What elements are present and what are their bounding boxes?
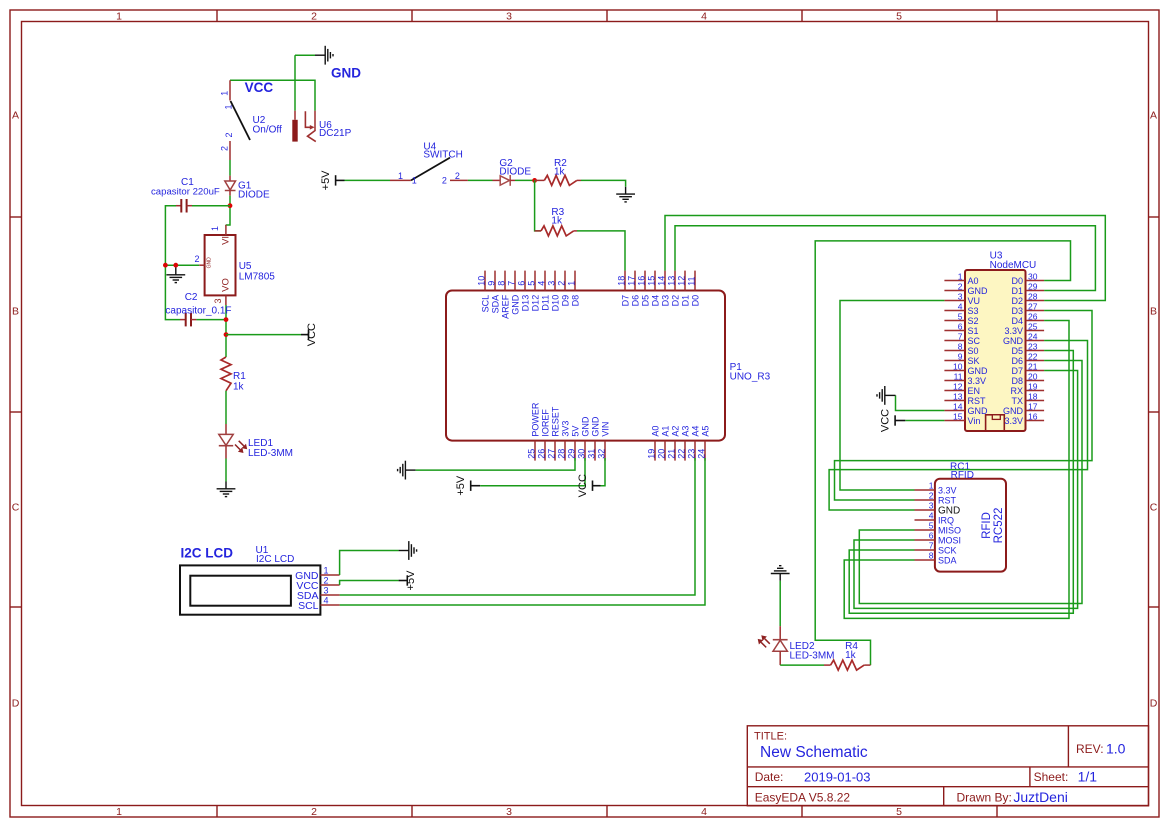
svg-text:9: 9 [487, 281, 497, 286]
connector U6 DC21P [292, 111, 316, 142]
diode G1 [225, 176, 236, 196]
svg-text:VCC: VCC [245, 80, 274, 95]
svg-text:+5V: +5V [455, 475, 467, 496]
svg-text:SDA: SDA [938, 556, 957, 566]
RC1 pin 8 SDA [915, 551, 957, 566]
svg-text:13: 13 [953, 391, 963, 401]
svg-text:7: 7 [929, 541, 934, 551]
regulator U5 LM7805 [199, 225, 235, 305]
svg-text:15: 15 [647, 276, 657, 286]
svg-text:11: 11 [954, 371, 963, 381]
svg-text:16: 16 [1028, 411, 1038, 421]
P1 pin 19 A0 [647, 426, 661, 461]
svg-text:NodeMCU: NodeMCU [990, 260, 1037, 271]
svg-text:12: 12 [677, 276, 687, 286]
svg-text:14: 14 [657, 276, 667, 286]
P1 pin 29 5V [567, 426, 581, 461]
svg-text:5: 5 [929, 521, 934, 531]
ground (U5 pin2) [166, 268, 185, 283]
svg-text:2: 2 [311, 806, 317, 818]
svg-text:10: 10 [953, 361, 963, 371]
svg-text:EN: EN [968, 386, 981, 396]
svg-text:D10: D10 [551, 295, 561, 312]
wire RC1 MISO to U3 D6 [859, 361, 1082, 604]
P1 pin 30 GND [577, 416, 591, 461]
svg-text:SK: SK [968, 356, 980, 366]
svg-text:LM7805: LM7805 [239, 272, 276, 283]
svg-text:25: 25 [1028, 321, 1038, 331]
U3 pin 18 TX [1011, 391, 1044, 406]
wire U2 pin1 to U6 pin2 [230, 80, 315, 110]
P1 pin 24 A5 [697, 426, 711, 461]
P1 pin 4 D11 [537, 271, 551, 311]
U3 pin 29 D1 [1011, 281, 1044, 296]
svg-text:RST: RST [938, 496, 957, 506]
RC1 pin 1 3.3V [915, 481, 957, 496]
P1 pin 9 SDA [487, 271, 501, 314]
U3 pin 15 Vin [944, 411, 980, 426]
junction below G1 [228, 203, 233, 208]
svg-text:26: 26 [1028, 311, 1038, 321]
wire ground to LED2 [779, 581, 781, 626]
svg-text:10: 10 [477, 276, 487, 286]
svg-text:3.3V: 3.3V [938, 486, 957, 496]
wire RC1 MOSI to U3 D7 [854, 371, 1078, 609]
U3 pin 9 SK [944, 351, 979, 366]
svg-text:2: 2 [958, 281, 963, 291]
RC1 pin 3 GND [915, 501, 961, 517]
P1 pin 23 A4 [687, 426, 701, 461]
svg-text:GND: GND [331, 66, 361, 81]
svg-text:POWER: POWER [531, 402, 541, 437]
svg-text:On/Off: On/Off [253, 124, 282, 135]
svg-text:5: 5 [896, 806, 902, 818]
svg-text:S1: S1 [968, 326, 979, 336]
svg-text:D4: D4 [1011, 316, 1023, 326]
U3 pin 23 D5 [1011, 341, 1044, 356]
svg-text:D8: D8 [1011, 376, 1023, 386]
svg-text:3: 3 [506, 806, 512, 818]
svg-text:GND: GND [581, 416, 591, 437]
svg-text:5V: 5V [571, 426, 581, 437]
svg-text:D13: D13 [521, 295, 531, 312]
resistor R3 [535, 226, 577, 236]
P1 pin 18 D7 [617, 271, 631, 307]
P1 pin 32 VIN [597, 422, 611, 461]
junction C2 [224, 317, 229, 322]
svg-text:VO: VO [221, 278, 232, 292]
wire LCD VCC to +5V [340, 581, 399, 586]
P1 pin 2 D9 [557, 271, 571, 307]
svg-text:1k: 1k [845, 650, 857, 661]
svg-text:MOSI: MOSI [938, 536, 961, 546]
svg-text:REV:: REV: [1076, 742, 1104, 756]
U3 pin 26 D4 [1011, 311, 1044, 326]
svg-text:20: 20 [1028, 371, 1038, 381]
wire VCC to GND net top [295, 54, 315, 56]
svg-text:8: 8 [929, 551, 934, 561]
U3 pin 24 GND [1003, 331, 1044, 346]
svg-text:3.3V: 3.3V [1004, 326, 1023, 336]
ground (LCD pin1) [399, 541, 417, 560]
svg-text:5: 5 [896, 11, 902, 23]
svg-text:3: 3 [213, 298, 223, 303]
svg-text:4: 4 [537, 281, 547, 286]
svg-text:3: 3 [929, 501, 934, 511]
svg-text:5: 5 [958, 311, 963, 321]
svg-text:16: 16 [637, 276, 647, 286]
svg-text:2: 2 [929, 491, 934, 501]
wire +5V to U4 [345, 179, 391, 181]
wire U5 pin2 to ground rail [165, 264, 199, 266]
svg-text:28: 28 [557, 449, 567, 459]
svg-text:RESET: RESET [551, 406, 561, 437]
svg-text:31: 31 [587, 449, 597, 459]
svg-text:GND: GND [968, 406, 989, 416]
svg-text:DIODE: DIODE [238, 190, 270, 201]
switch U4 SWITCH [390, 158, 468, 181]
svg-text:1: 1 [929, 481, 934, 491]
svg-text:3: 3 [958, 291, 963, 301]
svg-text:S0: S0 [968, 346, 979, 356]
svg-text:RC522: RC522 [993, 508, 1005, 544]
U3 pin 27 D3 [1011, 301, 1044, 316]
svg-text:LED-3MM: LED-3MM [248, 448, 293, 459]
svg-text:D5: D5 [1011, 346, 1023, 356]
svg-text:4: 4 [324, 596, 329, 606]
wire VCC to P1 pin32 [601, 458, 606, 486]
svg-text:U5: U5 [239, 261, 252, 272]
P1 pin 13 D2 [667, 271, 681, 307]
svg-text:GND: GND [1003, 406, 1024, 416]
svg-text:GND: GND [511, 294, 521, 315]
svg-text:D2: D2 [1011, 296, 1023, 306]
svg-text:B: B [1150, 306, 1157, 318]
svg-text:2: 2 [224, 132, 234, 137]
ground (R2) [616, 187, 635, 202]
svg-text:R1: R1 [233, 371, 246, 382]
svg-text:Sheet:: Sheet: [1034, 770, 1069, 784]
svg-text:23: 23 [687, 449, 697, 459]
svg-text:2019-01-03: 2019-01-03 [804, 770, 871, 785]
capacitor C2 [180, 313, 196, 327]
svg-text:capasitor 220uF: capasitor 220uF [151, 186, 220, 197]
U3 pin 12 EN [944, 381, 980, 396]
svg-text:A5: A5 [701, 426, 711, 437]
diode G2 [493, 175, 516, 186]
wire G1 to junction [226, 196, 230, 225]
U1 pin 4 SCL [298, 596, 340, 612]
title block [747, 726, 1148, 806]
svg-text:D1: D1 [1011, 286, 1023, 296]
wire RC1 SDA to U3 D4 [844, 321, 1069, 619]
svg-text:12: 12 [953, 381, 963, 391]
svg-text:TITLE:: TITLE: [754, 731, 787, 743]
svg-text:Date:: Date: [755, 770, 784, 784]
svg-text:4: 4 [929, 511, 934, 521]
svg-text:2: 2 [455, 171, 460, 181]
svg-text:RFID: RFID [981, 512, 993, 539]
resistor R1 [221, 357, 231, 391]
ground (U3 pin14) [877, 386, 896, 405]
svg-text:I2C LCD: I2C LCD [256, 554, 294, 565]
svg-text:A: A [1150, 110, 1157, 122]
U3 pin 20 D8 [1011, 371, 1044, 386]
wire ground to P1 pin29 [416, 458, 575, 470]
U1 pin 3 SDA [297, 586, 340, 602]
frame row letters left [12, 110, 20, 710]
wire C1 right to junction [192, 205, 230, 207]
svg-text:6: 6 [517, 281, 527, 286]
svg-text:3.3V: 3.3V [1004, 416, 1023, 426]
wire LED1 to ground [225, 459, 227, 482]
U3 pin 4 S3 [944, 301, 978, 316]
svg-text:1/1: 1/1 [1078, 769, 1098, 785]
svg-text:VIN: VIN [601, 422, 611, 437]
wire C2 right [196, 319, 226, 321]
svg-text:VU: VU [968, 296, 981, 306]
wire C1 left rail [165, 206, 180, 320]
svg-text:GND: GND [968, 286, 989, 296]
svg-text:5: 5 [527, 281, 537, 286]
svg-text:SWITCH: SWITCH [423, 150, 462, 161]
svg-text:3: 3 [506, 11, 512, 23]
power flag +5V (switch input) [336, 175, 345, 185]
svg-text:11: 11 [687, 276, 697, 285]
P1 pin 3 D10 [547, 271, 561, 312]
power flag +5V (LCD pin2) [399, 575, 408, 585]
svg-text:I2C LCD: I2C LCD [181, 546, 234, 561]
P1 pin 8 AREF [497, 271, 511, 319]
svg-text:A0: A0 [968, 276, 979, 286]
svg-text:1k: 1k [554, 166, 566, 177]
switch U2 On/Off [230, 80, 250, 160]
svg-text:A4: A4 [691, 426, 701, 437]
wire U3 VU to RC1 3.3V [840, 301, 944, 491]
svg-text:DIODE: DIODE [499, 166, 531, 177]
svg-text:D3: D3 [661, 295, 671, 307]
U3 pin 11 3.3V [944, 371, 986, 386]
U3 pin 28 D2 [1011, 291, 1044, 306]
svg-text:1k: 1k [233, 382, 245, 393]
svg-text:JuztDeni: JuztDeni [1013, 789, 1067, 805]
svg-text:2: 2 [557, 281, 567, 286]
svg-text:17: 17 [627, 276, 637, 286]
svg-text:2: 2 [220, 146, 230, 151]
svg-text:7: 7 [958, 331, 963, 341]
P1 pin 22 A3 [677, 426, 691, 461]
wire U2 pin2 to G1 [229, 160, 231, 176]
svg-text:19: 19 [1028, 381, 1038, 391]
svg-text:GND: GND [591, 416, 601, 437]
ground (LED1) [217, 482, 236, 497]
svg-text:RFID: RFID [951, 470, 974, 481]
wire R2 to ground [581, 180, 626, 186]
svg-text:EasyEDA V5.8.22: EasyEDA V5.8.22 [755, 791, 851, 805]
display U1 I2C LCD [180, 565, 320, 614]
svg-text:RX: RX [1010, 386, 1023, 396]
svg-text:1: 1 [220, 91, 230, 96]
svg-text:29: 29 [1028, 281, 1038, 291]
svg-text:DC21P: DC21P [319, 128, 352, 139]
power flag VCC (U5 output) [301, 329, 309, 339]
svg-text:1: 1 [224, 104, 234, 109]
svg-text:1: 1 [116, 11, 122, 23]
U3 pin 19 RX [1010, 381, 1044, 396]
svg-text:SCL: SCL [481, 295, 491, 313]
svg-text:3: 3 [547, 281, 557, 286]
svg-text:3: 3 [324, 586, 329, 596]
junction G2/R2/R3 [532, 178, 537, 183]
svg-text:IRQ: IRQ [938, 516, 954, 526]
svg-text:21: 21 [667, 449, 677, 459]
wire LED2 to R4 [780, 664, 824, 666]
wire R4 to U3 D0 [815, 241, 1070, 665]
svg-text:D: D [1150, 698, 1158, 710]
wire RC1 SCK to U3 D5 [849, 351, 1073, 614]
P1 pin 1 D8 [567, 271, 581, 307]
svg-text:24: 24 [697, 449, 707, 459]
svg-text:6: 6 [958, 321, 963, 331]
svg-text:D1: D1 [681, 295, 691, 307]
RC1 pin 7 SCK [915, 541, 957, 556]
P1 pin 26 IOREF [537, 409, 551, 461]
svg-text:GND: GND [968, 366, 989, 376]
wire P1 A5 to LCD SCL [340, 458, 705, 605]
wire +5V to P1 pin30 [480, 458, 585, 486]
svg-text:4: 4 [701, 11, 707, 23]
svg-text:1: 1 [398, 171, 403, 181]
P1 pin 25 POWER [527, 402, 541, 461]
svg-text:1: 1 [567, 281, 577, 286]
P1 pin 21 A2 [667, 426, 681, 461]
svg-text:LED-3MM: LED-3MM [790, 651, 835, 662]
svg-text:15: 15 [953, 411, 963, 421]
svg-text:30: 30 [577, 449, 587, 459]
svg-text:2: 2 [311, 11, 317, 23]
wire P1 D3 to U3 D2 [665, 216, 1105, 301]
svg-text:capasitor_0.1F: capasitor_0.1F [165, 305, 231, 316]
U1 pin 2 VCC [296, 576, 339, 592]
svg-text:18: 18 [617, 276, 627, 286]
svg-text:1.0: 1.0 [1106, 741, 1126, 757]
svg-text:6: 6 [929, 531, 934, 541]
svg-text:21: 21 [1028, 361, 1038, 371]
svg-text:A3: A3 [681, 426, 691, 437]
svg-text:MISO: MISO [938, 526, 961, 536]
MCU board P1 UNO_R3 [446, 291, 725, 441]
wire U3 Vin pin15 [905, 420, 944, 422]
svg-text:1k: 1k [551, 216, 563, 227]
svg-text:1: 1 [958, 271, 963, 281]
wire junction down to R3 [535, 180, 541, 231]
svg-text:18: 18 [1028, 391, 1038, 401]
RFID module RC1 RC522 [935, 479, 1006, 572]
svg-text:1: 1 [412, 176, 417, 186]
svg-text:C2: C2 [185, 292, 198, 303]
power flag VCC (P1 pin32) [593, 481, 601, 491]
U3 pin 21 D7 [1011, 361, 1044, 376]
svg-text:22: 22 [1028, 351, 1038, 361]
U3 pin 6 S1 [944, 321, 978, 336]
P1 pin 27 RESET [547, 406, 561, 461]
svg-text:A: A [12, 110, 19, 122]
U3 pin 14 GND [944, 401, 988, 416]
junction ground tap [173, 263, 178, 268]
svg-text:1: 1 [324, 566, 329, 576]
frame column numbers top [116, 11, 902, 23]
P1 pin 28 3V3 [557, 421, 571, 461]
P1 pin 16 D5 [637, 271, 651, 307]
ground (P1 pin29) [398, 461, 416, 480]
power flag +5V (P1 pin30) [471, 481, 481, 491]
svg-text:17: 17 [1028, 401, 1038, 411]
svg-text:B: B [12, 306, 19, 318]
wire to VCC flag [226, 334, 301, 336]
P1 pin 11 D0 [687, 271, 701, 307]
svg-text:26: 26 [537, 449, 547, 459]
U3 pin 2 GND [944, 281, 988, 296]
U3 pin 8 S0 [944, 341, 978, 356]
svg-text:VI: VI [221, 236, 232, 245]
U3 pin 10 GND [944, 361, 988, 376]
RC1 pin 6 MOSI [915, 531, 962, 546]
U3 pin 1 A0 [944, 271, 978, 286]
svg-text:D8: D8 [571, 295, 581, 307]
U3 pin 13 RST [944, 391, 986, 406]
svg-text:1: 1 [210, 226, 220, 231]
U3 pin 22 D6 [1011, 351, 1044, 366]
frame column numbers bottom [116, 806, 902, 818]
svg-text:VCC: VCC [879, 409, 891, 432]
P1 pin 17 D6 [627, 271, 641, 307]
svg-text:Drawn By:: Drawn By: [957, 791, 1012, 805]
svg-text:New Schematic: New Schematic [760, 744, 868, 761]
svg-text:+5V: +5V [405, 570, 417, 591]
svg-text:8: 8 [497, 281, 507, 286]
svg-text:13: 13 [667, 276, 677, 286]
U1 pin 1 GND [295, 566, 339, 582]
P1 pin 20 A1 [657, 426, 671, 461]
svg-text:SCK: SCK [938, 546, 957, 556]
svg-text:22: 22 [677, 449, 687, 459]
svg-text:9: 9 [958, 351, 963, 361]
svg-text:SDA: SDA [491, 295, 501, 314]
svg-text:4: 4 [958, 301, 963, 311]
frame row letters right [1150, 110, 1158, 710]
svg-text:D2: D2 [671, 295, 681, 307]
wire U6 pin1 vertical [294, 55, 296, 110]
svg-text:RST: RST [968, 396, 987, 406]
svg-text:19: 19 [647, 449, 657, 459]
svg-text:A2: A2 [671, 426, 681, 437]
wire P1 A4 to LCD SDA [340, 458, 695, 595]
RC1 pin 4 IRQ [915, 511, 955, 526]
svg-text:S2: S2 [968, 316, 979, 326]
ground (top, near U6) [315, 46, 333, 65]
junction VCC tap [224, 332, 229, 337]
svg-text:VCC: VCC [577, 474, 589, 497]
svg-text:D3: D3 [1011, 306, 1023, 316]
ground (LED2) [771, 566, 790, 581]
LED LED1 [219, 424, 247, 459]
MCU U3 NodeMCU [965, 270, 1026, 431]
svg-text:Vin: Vin [968, 416, 981, 426]
svg-text:2: 2 [194, 254, 199, 264]
P1 pin 10 SCL [477, 271, 491, 313]
svg-text:14: 14 [953, 401, 963, 411]
svg-text:S3: S3 [968, 306, 979, 316]
